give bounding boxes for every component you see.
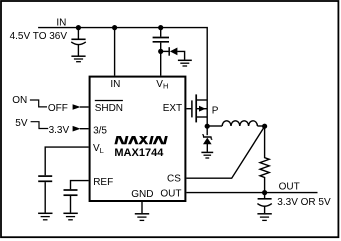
- svg-text:OFF: OFF: [48, 103, 68, 114]
- svg-text:ON: ON: [12, 95, 27, 106]
- svg-text:5V: 5V: [15, 118, 28, 129]
- svg-text:CS: CS: [167, 174, 181, 185]
- svg-text:P: P: [212, 106, 219, 117]
- svg-text:GND: GND: [131, 189, 153, 200]
- svg-text:OUT: OUT: [160, 188, 181, 199]
- svg-text:VL: VL: [93, 143, 104, 155]
- svg-text:IN: IN: [110, 79, 120, 90]
- svg-text:3.3V OR 5V: 3.3V OR 5V: [277, 197, 331, 208]
- svg-text:REF: REF: [93, 177, 113, 188]
- svg-text:MAX1744: MAX1744: [114, 147, 164, 159]
- svg-text:3/5: 3/5: [93, 125, 107, 136]
- svg-text:4.5V TO 36V: 4.5V TO 36V: [10, 31, 68, 42]
- svg-text:SHDN: SHDN: [95, 103, 123, 114]
- svg-text:VH: VH: [156, 79, 168, 91]
- svg-text:OUT: OUT: [279, 181, 300, 192]
- svg-text:EXT: EXT: [163, 103, 182, 114]
- svg-text:IN: IN: [56, 18, 66, 29]
- svg-text:3.3V: 3.3V: [49, 125, 70, 136]
